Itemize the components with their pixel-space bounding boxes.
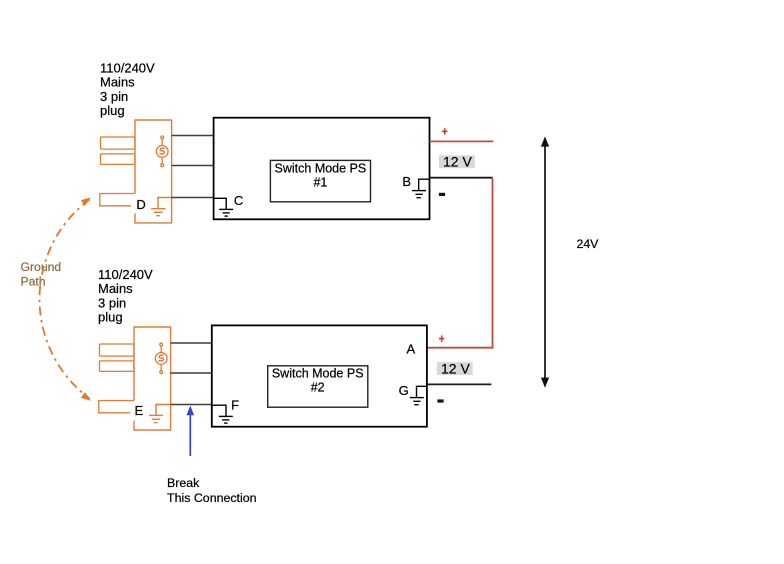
plus sign PS1 [442,128,448,134]
label: Ground Path annotation [21,260,62,288]
ground-path arrowhead top [81,197,91,206]
label: mains text block 1 [100,61,155,119]
U2 inner label box [268,366,368,407]
wire G minus output (black) [427,383,491,385]
plug P1 pin L [101,137,135,149]
plug P2 pin L [100,344,134,356]
mains plug P1 (body) [135,120,172,223]
mains plug P2 (body) [134,327,171,430]
wire plug2 ground to F [171,404,212,406]
minus sign PS1 [439,193,445,196]
svg-text:#1: #1 [313,175,327,189]
12V label PS1 [439,154,475,170]
ground symbol C [214,198,233,216]
svg-text:Path: Path [21,274,46,288]
wire plug1 ground to C [172,197,214,199]
svg-text:B: B [402,174,411,189]
svg-text:plug: plug [98,310,123,325]
U1 label text [275,161,367,189]
label: mains text block 2 [98,267,153,325]
svg-text:C: C [234,193,243,208]
U2 label text [272,367,364,395]
svg-text:Mains: Mains [98,281,133,296]
svg-text:Ground: Ground [21,260,62,274]
svg-text:24V: 24V [577,237,600,251]
svg-text:#2: #2 [311,381,325,395]
svg-text:G: G [399,383,409,398]
svg-text:A: A [407,341,416,356]
ground-path arrowhead bottom [81,392,91,401]
ground symbol D (inside plug 1) [151,198,171,216]
power supply box U1 [214,118,430,220]
svg-text:F: F [231,398,239,413]
svg-text:3 pin: 3 pin [98,295,126,310]
wire PS1 plus output (red) [430,140,494,142]
svg-text:110/240V: 110/240V [98,267,153,282]
wire plug2 line2 [171,372,212,374]
ground-path dashed arrow [39,200,89,399]
wire B minus output (black) [430,177,493,179]
wire series link (red, B to A) [427,178,493,347]
svg-text:Mains: Mains [100,75,135,90]
svg-text:D: D [136,197,145,212]
ground symbol G [410,386,428,404]
svg-text:Switch Mode PS: Switch Mode PS [272,367,364,381]
wire plug1 line1 [172,135,214,137]
wire plug1 line2 [172,165,214,167]
minus sign PS2 [437,399,443,402]
svg-text:110/240V: 110/240V [100,61,155,76]
wire plug2 line1 [171,342,212,344]
svg-text:E: E [135,403,144,418]
svg-text:12 V: 12 V [441,361,470,377]
power supply box U2 [212,325,427,426]
svg-text:Break: Break [167,476,200,490]
plug P2 ground pin [99,401,134,413]
plug P1 pin N [101,154,135,165]
svg-text:12 V: 12 V [443,154,472,170]
svg-text:3 pin: 3 pin [100,89,128,104]
U1 inner label box [270,160,370,201]
svg-text:This Connection: This Connection [167,491,257,505]
plug P1 ground pin [100,194,135,206]
AC source V2 [155,343,167,374]
12V label PS2 [437,361,473,377]
ground symbol E (inside plug 2) [149,405,171,423]
break-connection label [167,476,257,505]
plus sign PS2 [439,335,445,341]
ground symbol F [212,405,233,423]
svg-text:Switch Mode PS: Switch Mode PS [275,161,367,175]
plug P2 pin N [100,361,134,372]
ground symbol B [412,179,430,198]
break-connection blue arrow [187,406,195,456]
24V measurement arrow [541,136,549,387]
AC source V1 [156,136,168,167]
svg-text:plug: plug [100,103,125,118]
